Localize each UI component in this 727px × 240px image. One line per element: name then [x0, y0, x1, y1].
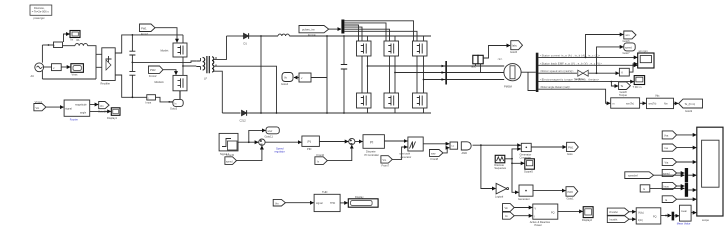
wire trigen out — [505, 149, 521, 159]
dc minus rail — [222, 112, 240, 114]
wire sensor to tag — [483, 46, 510, 59]
scope panel — [697, 127, 723, 222]
svg-text:Vin: Vin — [505, 207, 509, 210]
gain rad2rpm — [575, 70, 588, 81]
mean value block — [677, 205, 691, 225]
svg-text:PID: PID — [307, 147, 311, 151]
node v tap — [326, 112, 328, 114]
from block Is3 — [640, 185, 650, 192]
inverter top rail — [344, 35, 431, 37]
goto tag PWM2 — [566, 187, 578, 201]
svg-text:THD: THD — [322, 190, 327, 194]
svg-text:Discrete,: Discrete, — [34, 6, 45, 10]
goto tag PWM1 — [567, 142, 579, 156]
svg-text:regulator: regulator — [275, 150, 285, 154]
wire phase B — [395, 72, 504, 74]
svg-text:K: K — [621, 71, 623, 75]
svg-text:Display1: Display1 — [107, 116, 118, 120]
wire bus out L2 — [538, 64, 637, 66]
svg-text:<Electromagnetic torque Te (N*: <Electromagnetic torque Te (N*m) , theta… — [540, 79, 600, 82]
wire mux3 to mean — [674, 215, 679, 217]
VI block — [636, 208, 661, 224]
mosfet S2 — [384, 36, 399, 56]
node d2 — [260, 112, 262, 114]
mux M3 — [672, 212, 675, 221]
from tag PWM1 — [140, 24, 156, 36]
svg-text:Mosfet1: Mosfet1 — [155, 80, 165, 84]
wire pwm down — [481, 145, 496, 188]
wire pulses to demux — [329, 28, 341, 30]
wire PI1 to sum2 — [319, 141, 348, 143]
diode bridge B1 — [101, 48, 116, 86]
bridge input stubs — [96, 54, 102, 67]
fourier block — [64, 100, 90, 121]
from tag Vm2 — [381, 156, 392, 168]
from tag Vin — [34, 100, 46, 111]
node j1 — [48, 44, 50, 46]
svg-text:Sequence: Sequence — [494, 166, 506, 170]
wire Vta to scope — [677, 161, 697, 163]
from tag Ia2 — [662, 196, 676, 203]
svg-text:<Stator current is_a (A) , is_: <Stator current is_a (A) , is_b (A) , is… — [540, 54, 601, 57]
from tag Te ref — [679, 99, 703, 113]
dc plus rail — [227, 35, 243, 37]
wire phase A — [368, 65, 505, 67]
sum S1 — [259, 139, 265, 145]
svg-text:From6: From6 — [317, 153, 325, 157]
svg-text:Vm: Vm — [383, 159, 387, 162]
arrow a — [442, 65, 446, 68]
svg-text:Vsa: Vsa — [664, 134, 669, 137]
wire sec mid right — [216, 66, 277, 113]
svg-text:<Stator back EMF e_a (V) , e_b: <Stator back EMF e_a (V) , e_b (V) , e_c… — [540, 62, 602, 65]
wire motor aux — [528, 72, 536, 90]
svg-text:T DC m: T DC m — [633, 85, 642, 89]
mosfet S4 — [357, 93, 372, 113]
svg-text:PI Controller: PI Controller — [365, 153, 380, 157]
wire Vsa to scope — [677, 134, 697, 136]
wire rate to scope1 — [629, 64, 637, 72]
svg-text:Rectifier: Rectifier — [101, 81, 111, 85]
svg-text:speed: speed — [226, 160, 233, 163]
svg-text:PW2: PW2 — [150, 68, 156, 72]
wire riser to wm tag — [586, 35, 624, 58]
dc link capacitor C3 — [341, 36, 347, 114]
scope pwm — [524, 159, 534, 174]
wire mux1 to scope — [688, 174, 696, 176]
from tag ImeanIn — [607, 216, 629, 223]
svg-text:scope: scope — [702, 219, 709, 222]
svg-text:Vm: Vm — [275, 203, 279, 206]
svg-text:From2: From2 — [149, 74, 157, 78]
wire gate g5 — [344, 29, 389, 93]
svg-text:Display2: Display2 — [582, 218, 593, 222]
svg-text:I(dc): I(dc) — [638, 219, 643, 222]
svg-text:PI: PI — [308, 140, 311, 144]
wire to scope Iin — [64, 34, 70, 42]
svg-text:Imos: Imos — [146, 100, 152, 104]
relational operator — [450, 142, 458, 149]
current measurement i2 — [146, 95, 156, 105]
wire demux to gain — [640, 102, 646, 104]
goto tag wm — [623, 31, 637, 43]
display Vin — [71, 64, 84, 77]
from tag Imos — [662, 182, 676, 189]
wire step to sum1 — [238, 141, 258, 143]
PI controller 2 — [363, 135, 384, 157]
wire conv2 to goto — [533, 190, 566, 192]
svg-text:>=: >= — [451, 144, 455, 148]
svg-text:Scope5: Scope5 — [524, 169, 533, 173]
svg-text:Goto4: Goto4 — [281, 82, 289, 86]
wire mux2 to scope — [688, 189, 696, 191]
svg-text:mean: mean — [681, 210, 688, 213]
wire L4 branch to tag — [611, 82, 618, 86]
svg-text:From5: From5 — [227, 153, 235, 157]
svg-text:wref: wref — [268, 130, 273, 133]
wire speedref to mux1 — [654, 174, 685, 176]
wire Q2 source down — [169, 91, 180, 102]
wire Imos to mux2 — [677, 185, 685, 187]
from tag Is1 — [315, 153, 327, 164]
arrow b — [442, 71, 446, 74]
mosfet Q2 — [155, 75, 188, 90]
wire hb mid to transformer — [183, 65, 196, 67]
from tag Vta — [662, 158, 676, 165]
wire phase C leg — [423, 56, 425, 93]
svg-text:speedref: speedref — [628, 175, 638, 178]
triangle generator — [494, 155, 506, 170]
wire Isa to scope — [677, 147, 697, 149]
node half bridge mid — [182, 65, 184, 67]
from tag speed2 — [662, 169, 676, 176]
wire v1 to display — [61, 66, 70, 68]
wire rail to Q1 drain — [182, 35, 184, 43]
wire bridge out minus — [115, 75, 147, 97]
svg-text:wm: wm — [626, 34, 630, 37]
from tag speed1 — [225, 153, 237, 164]
from tag VmeanIn — [607, 208, 629, 215]
svg-text:RL: RL — [77, 38, 81, 42]
wire VI to mux3 — [661, 215, 671, 217]
svg-text:PW1: PW1 — [141, 26, 147, 30]
wire bridge out plus — [115, 35, 183, 53]
motor PMSM M1 — [504, 64, 521, 89]
goto tag Vo — [281, 73, 293, 87]
demux gate bus — [341, 20, 344, 34]
svg-text:signal: signal — [65, 108, 72, 111]
measurement bar — [445, 61, 447, 85]
voltage measurement v2 — [299, 73, 311, 82]
capacitor C1 — [129, 35, 135, 63]
from tag Isa — [662, 144, 676, 151]
svg-text:PQ: PQ — [653, 215, 657, 218]
from tag saw — [430, 150, 444, 161]
svg-text:Power: Power — [535, 223, 542, 227]
wire mean to scope — [691, 212, 696, 214]
wire L3 cont — [589, 72, 619, 74]
goto tag speed — [623, 43, 636, 55]
mosfet S5 — [384, 93, 399, 113]
wire Q1 source to Q2 drain — [182, 57, 184, 75]
data type conversion 2 — [518, 185, 533, 201]
wire tag2 to VI block — [629, 218, 636, 220]
mux M2 — [685, 183, 688, 197]
svg-text:Nm: Nm — [664, 103, 668, 106]
wire v tap — [42, 66, 51, 68]
svg-text:C2L2: C2L2 — [240, 119, 247, 123]
node cap mid — [132, 62, 134, 64]
svg-text:From4: From4 — [308, 33, 316, 37]
mosfet S3 — [413, 36, 428, 56]
wire PQ to display — [558, 210, 583, 212]
wire PWM2 to gate — [163, 70, 176, 75]
current sensor block — [471, 55, 483, 72]
node source join — [168, 101, 170, 103]
from tag Vin2 — [503, 204, 515, 212]
wire Is1 to sum2 — [327, 145, 352, 161]
node phase A — [367, 65, 369, 67]
wire sum1 to PI1 — [265, 141, 301, 143]
wire phase B leg — [394, 56, 396, 93]
display THD — [348, 195, 378, 207]
svg-text:m: m — [613, 102, 615, 105]
node step out — [248, 141, 250, 143]
wire gate out — [473, 144, 521, 146]
svg-text:saw: saw — [431, 153, 436, 156]
PI controller 1 — [302, 136, 320, 151]
goto tag Vmag — [98, 102, 109, 114]
node phase B — [394, 72, 396, 74]
svg-text:<Rotor angle thetam (rad)>: <Rotor angle thetam (rad)> — [540, 86, 571, 89]
wire THD to display — [340, 202, 348, 204]
inverter bottom rail — [344, 112, 431, 114]
svg-text:generator: generator — [401, 156, 412, 159]
wire phase C — [424, 79, 505, 81]
svg-text:Goto11: Goto11 — [265, 134, 274, 138]
wire tags to PQ — [514, 207, 532, 209]
mosfet Q1 — [161, 43, 188, 57]
svg-text:Vta: Vta — [665, 162, 669, 165]
wire sum2 to PI2 — [355, 141, 363, 143]
node phase C — [423, 79, 425, 81]
bus selector — [536, 53, 539, 92]
node L4 — [611, 81, 613, 83]
wire phase A leg — [367, 56, 369, 93]
wire bus out L5 — [538, 89, 610, 103]
scope Iin — [70, 31, 80, 42]
svg-text:AC: AC — [31, 74, 35, 78]
scope wm — [638, 49, 654, 68]
wire i2 out — [156, 97, 170, 102]
svg-text:AND: AND — [462, 151, 468, 155]
svg-text:Vrms: Vrms — [72, 72, 79, 76]
wire D1 to L1 — [251, 35, 278, 37]
diode D1 — [242, 33, 251, 45]
node dc plus inverter — [343, 35, 345, 37]
wire speed1 to sum1 — [237, 146, 262, 161]
sawtooth generator block — [399, 137, 423, 159]
svg-text:= Ts=2e-006 s: = Ts=2e-006 s — [32, 10, 50, 14]
goto tag wref — [265, 127, 280, 138]
display angle — [107, 108, 120, 120]
svg-text:From1: From1 — [141, 32, 149, 36]
wire bus out L3 — [538, 72, 577, 74]
svg-text:powergui: powergui — [34, 16, 45, 20]
node VI out — [665, 215, 667, 217]
svg-text:D1: D1 — [244, 42, 248, 46]
svg-text:Goto1: Goto1 — [567, 197, 575, 201]
svg-text:Logical: Logical — [495, 194, 504, 198]
from tag speedref — [625, 172, 654, 179]
logic AND gate — [461, 142, 471, 155]
wire gate g4 — [344, 27, 362, 93]
svg-text:Vm: Vm — [100, 105, 104, 108]
wire AC bottom rail — [42, 78, 96, 80]
svg-text:Goto3: Goto3 — [170, 107, 178, 111]
wire v2 to tag — [294, 77, 299, 79]
wire fourier mag — [90, 104, 99, 106]
svg-text:Mosfet: Mosfet — [161, 49, 169, 53]
diode D2 — [240, 110, 250, 122]
mosfet S6 — [413, 93, 428, 113]
svg-text:<m>: <m> — [498, 58, 503, 61]
from tag PWM2 — [149, 66, 164, 78]
wire to THD — [285, 202, 313, 204]
wire v2 tap — [311, 36, 327, 113]
mosfet S1 — [357, 36, 372, 56]
rate block on L3 — [619, 68, 629, 76]
wire speed2 to mux1 — [677, 172, 685, 174]
node tri2 — [511, 162, 513, 164]
wire tag2 to PQ — [514, 215, 532, 217]
from tag Iin2 — [503, 212, 515, 219]
svg-text:Imosfet: Imosfet — [610, 218, 618, 221]
wire sec top to dc rail — [216, 36, 227, 59]
node cap bottom — [132, 96, 134, 98]
svg-text:wm(Te): wm(Te) — [626, 102, 634, 105]
svg-text:Vmosfet: Vmosfet — [609, 211, 618, 214]
wire trigen down — [512, 163, 519, 192]
scope Te — [633, 76, 645, 89]
capacitor C2 — [129, 62, 135, 97]
filter branch vertical — [260, 36, 262, 113]
node cap top — [132, 34, 134, 36]
node mid rail — [276, 112, 278, 114]
svg-text:From7: From7 — [382, 163, 390, 167]
svg-text:V(dc): V(dc) — [638, 211, 644, 214]
svg-text:wm(Te): wm(Te) — [649, 103, 657, 106]
svg-text:wm rpm: wm rpm — [639, 49, 648, 53]
wire gain to from tag — [674, 102, 679, 104]
active reactive power block — [530, 204, 558, 227]
machines measurement demux — [611, 98, 640, 108]
node trigen — [511, 158, 513, 160]
svg-text:PMSM: PMSM — [504, 85, 512, 89]
svg-text:Fourier: Fourier — [70, 117, 78, 121]
from tag pulses — [299, 26, 329, 38]
svg-text:PQ: PQ — [551, 212, 555, 215]
svg-text:PI: PI — [370, 140, 373, 144]
wire gen to relop — [423, 143, 449, 145]
wire gate g3 — [344, 25, 358, 41]
node rail j — [260, 35, 262, 37]
svg-text:PW1: PW1 — [568, 146, 574, 149]
AC voltage source V1 — [31, 45, 44, 79]
from tag VmTHD — [273, 199, 285, 206]
svg-text:Goto9: Goto9 — [685, 109, 693, 113]
goto tag Te — [619, 82, 631, 97]
svg-text:Te_(N.m): Te_(N.m) — [685, 102, 696, 106]
svg-text:speed: speed — [625, 46, 632, 49]
svg-text:Vdc: Vdc — [655, 94, 660, 98]
svg-text:Goto5: Goto5 — [510, 50, 518, 54]
svg-text:Generator: Generator — [518, 197, 530, 201]
svg-text:magnitude: magnitude — [75, 104, 87, 107]
wire fourier angle — [90, 110, 111, 112]
wire sec bottom down — [216, 71, 222, 113]
svg-text:angle: angle — [80, 112, 87, 115]
wire saw to relop — [443, 148, 449, 153]
wire Vin to fourier — [46, 106, 64, 108]
display PQ — [582, 207, 593, 223]
svg-text:PW2: PW2 — [568, 191, 574, 194]
svg-text:Iabc: Iabc — [512, 44, 518, 48]
wire riser to speed tag — [597, 47, 624, 73]
wire cap mid to transformer — [132, 61, 196, 62]
goto tag Is — [170, 99, 183, 110]
transformer T1 — [196, 56, 216, 81]
svg-text:From8: From8 — [431, 157, 439, 161]
step block speed ref — [219, 133, 238, 156]
wire gate g6 — [344, 31, 417, 93]
node pwm branch — [480, 144, 482, 146]
inductor RL — [63, 38, 88, 46]
wire AC top — [42, 44, 53, 46]
from tag Vsa — [662, 131, 676, 139]
wire motor m out — [521, 71, 536, 73]
svg-text:Goto: Goto — [567, 152, 573, 156]
goto tag Iabc — [510, 41, 523, 55]
wire PI2 to gen — [384, 140, 407, 142]
svg-text:<Rotor speed wm (rad/s)>: <Rotor speed wm (rad/s)> — [540, 70, 574, 73]
logic NOT gate — [495, 183, 509, 198]
svg-text:signal: signal — [316, 202, 323, 205]
svg-text:Goto7: Goto7 — [623, 51, 631, 55]
wire tags to VI block — [629, 211, 636, 213]
wire bus out L4 — [538, 81, 634, 83]
voltage measurement v1 — [52, 64, 62, 71]
wire Vm2 to gen — [392, 147, 407, 159]
wire trigen to scope — [512, 159, 524, 164]
wire conv1 to goto — [531, 146, 566, 148]
current measurement i1 — [54, 42, 63, 48]
wire D2 right — [250, 112, 345, 114]
wire gate g1 — [344, 21, 413, 41]
mux M1 — [685, 168, 688, 182]
wire Ia2 to scope — [677, 198, 697, 200]
wire to goto wref — [249, 130, 266, 142]
svg-text:pulses_inv: pulses_inv — [302, 28, 315, 32]
wire Is3 to mux2 — [650, 187, 685, 189]
svg-text:Goto6: Goto6 — [623, 39, 631, 43]
svg-text:LF: LF — [204, 77, 207, 81]
inductor L1 — [278, 34, 289, 36]
node L1 — [585, 57, 587, 59]
wire inductor to bridge — [88, 46, 96, 79]
sum S2 — [349, 138, 355, 144]
svg-text:Torque: Torque — [619, 93, 627, 97]
